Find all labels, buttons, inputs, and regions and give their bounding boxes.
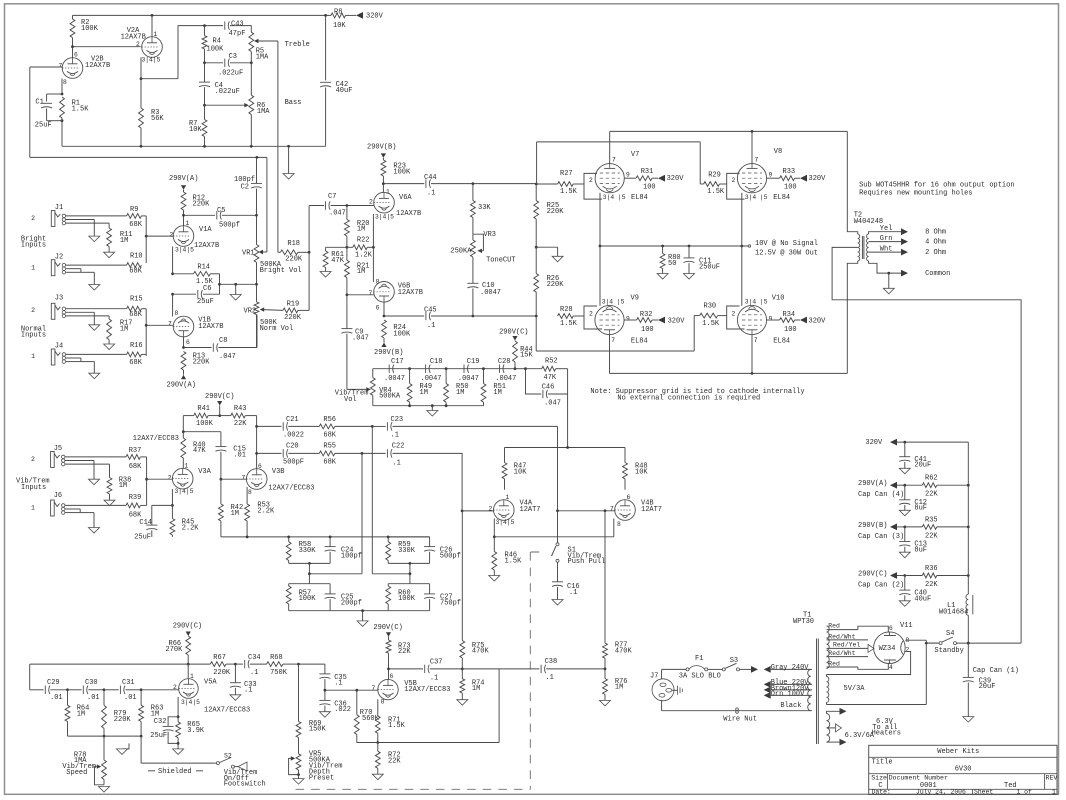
resistor R28 xyxy=(558,306,584,328)
resistor R37 xyxy=(126,447,147,505)
wire T2 primary top xyxy=(847,131,857,234)
switch S4 standby xyxy=(925,630,1021,655)
label Treble xyxy=(285,41,310,49)
wire phase bottom rail xyxy=(289,609,430,612)
svg-text:R14: R14 xyxy=(197,264,210,272)
wire V5B cathode rail xyxy=(357,742,499,744)
svg-text:VR3: VR3 xyxy=(483,231,496,239)
svg-text:V6A: V6A xyxy=(399,194,412,202)
svg-text:Footswitch: Footswitch xyxy=(224,781,266,789)
svg-text:Yel: Yel xyxy=(880,225,893,233)
svg-text:C46: C46 xyxy=(542,384,555,392)
svg-text:9: 9 xyxy=(626,316,630,323)
wire V3B grid xyxy=(221,478,247,480)
resistor R69 xyxy=(296,664,326,754)
svg-text:.01: .01 xyxy=(87,694,100,702)
resistor R17 xyxy=(104,319,133,350)
svg-text:1M: 1M xyxy=(357,268,365,276)
tube V1A xyxy=(173,220,219,254)
wire vib chain rail xyxy=(373,367,527,370)
svg-text:220K: 220K xyxy=(114,716,132,724)
svg-text:1.2K: 1.2K xyxy=(355,251,373,259)
svg-text:July 24, 2006: July 24, 2006 xyxy=(916,789,966,796)
svg-text:1: 1 xyxy=(386,188,390,195)
resistor R38 xyxy=(104,476,131,505)
wire HT redyel xyxy=(827,642,875,653)
svg-text:1: 1 xyxy=(190,673,194,680)
ground phase network xyxy=(357,611,368,627)
svg-text:Sub WOT45HHR for 16 ohm output: Sub WOT45HHR for 16 ohm output option xyxy=(859,182,1014,190)
resistor R7 xyxy=(189,105,207,146)
svg-text:10K: 10K xyxy=(333,22,346,30)
resistor R36 xyxy=(858,527,970,589)
ground J2 xyxy=(89,285,100,291)
svg-text:C43: C43 xyxy=(231,21,244,29)
svg-text:.047: .047 xyxy=(352,335,369,343)
svg-text:2.2K: 2.2K xyxy=(257,507,275,515)
svg-text:12AX7B: 12AX7B xyxy=(396,210,421,218)
svg-text:500pf: 500pf xyxy=(440,553,461,561)
svg-text:R32: R32 xyxy=(640,311,653,319)
wire T2 center tap xyxy=(832,247,1021,643)
svg-text:22K: 22K xyxy=(925,581,938,589)
capacitor C9 xyxy=(341,295,368,390)
svg-text:7: 7 xyxy=(59,62,63,69)
wire V7 plate xyxy=(609,131,611,163)
svg-text:R35: R35 xyxy=(925,516,938,524)
svg-text:S3: S3 xyxy=(730,657,738,665)
svg-text:Date:: Date: xyxy=(872,789,891,796)
fuse F1 xyxy=(679,655,721,680)
tube V5A xyxy=(179,673,251,715)
svg-text:9: 9 xyxy=(769,316,773,323)
wire V7 grid bracket xyxy=(584,173,602,199)
svg-text:22K: 22K xyxy=(234,420,247,428)
svg-text:R33: R33 xyxy=(783,168,796,176)
svg-text:3|4|5: 3|4|5 xyxy=(496,519,515,526)
svg-text:Inputs: Inputs xyxy=(21,242,46,250)
resistor R73 xyxy=(386,637,411,680)
svg-text:40uF: 40uF xyxy=(336,87,353,95)
capacitor C12 xyxy=(899,485,927,516)
svg-text:7: 7 xyxy=(610,506,614,513)
wire footswitch xyxy=(141,736,216,763)
svg-text:12AX7B: 12AX7B xyxy=(194,242,219,250)
label heaters xyxy=(845,718,901,740)
capacitor C20 xyxy=(257,443,320,467)
svg-text:No external connection is requ: No external connection is required xyxy=(617,395,760,403)
svg-text:Red: Red xyxy=(828,623,840,630)
connector J7 xyxy=(650,673,674,701)
potentiometer R78 speed xyxy=(62,736,109,792)
resistor R29 xyxy=(700,171,727,195)
potentiometer VR5 depth xyxy=(289,751,343,784)
resistor R19 xyxy=(260,252,309,322)
capacitor C40 xyxy=(899,576,931,607)
svg-text:1M: 1M xyxy=(77,710,85,718)
jack J5 xyxy=(31,445,65,468)
tube V10 EL84 xyxy=(737,294,790,345)
mains blue xyxy=(764,679,812,688)
wire V3B cathode xyxy=(246,487,248,504)
svg-text:1M: 1M xyxy=(231,510,239,518)
wire J7 neutral xyxy=(662,700,812,711)
svg-text:56K: 56K xyxy=(151,115,164,123)
capacitor C46 xyxy=(526,369,568,448)
svg-text:R55: R55 xyxy=(323,443,336,451)
svg-text:3|4 |5: 3|4 |5 xyxy=(602,298,625,305)
svg-text:V1A: V1A xyxy=(199,226,212,234)
svg-text:C7: C7 xyxy=(328,193,336,201)
svg-text:750pf: 750pf xyxy=(440,600,461,608)
resistor R44 xyxy=(499,329,533,371)
svg-text:290V(C): 290V(C) xyxy=(373,624,402,632)
svg-text:200pf: 200pf xyxy=(341,600,362,608)
resistor R80 xyxy=(657,246,681,279)
resistor R1 xyxy=(60,97,90,122)
wire V1B grid xyxy=(145,320,173,327)
wire HT redwht 2 xyxy=(827,650,869,657)
wire V3A cathode xyxy=(152,489,174,525)
svg-text:3.9K: 3.9K xyxy=(187,727,205,735)
svg-text:Red/Wht: Red/Wht xyxy=(828,633,855,640)
svg-text:15K: 15K xyxy=(520,352,533,360)
switch S2 xyxy=(216,753,234,769)
svg-text:Preset: Preset xyxy=(309,775,334,783)
wire V3A plate node xyxy=(182,416,221,434)
wire V1B plate xyxy=(182,337,185,349)
tube V4B xyxy=(610,494,662,528)
wire V3B plate node xyxy=(255,416,258,469)
resistor R21 xyxy=(345,247,370,296)
svg-text:3|4|5: 3|4|5 xyxy=(181,699,200,706)
wire HT redwht 1 xyxy=(827,633,869,640)
svg-text:2: 2 xyxy=(168,474,172,481)
ground tone stack xyxy=(283,146,294,179)
svg-text:6: 6 xyxy=(186,339,190,346)
svg-text:3A SLO BLO: 3A SLO BLO xyxy=(679,673,721,681)
label VibTrem Inputs xyxy=(16,478,50,493)
svg-text:Bright Vol: Bright Vol xyxy=(260,267,302,275)
svg-text:320V: 320V xyxy=(809,317,827,325)
dashed boundary xyxy=(296,552,545,789)
wire V1A cathode xyxy=(171,247,174,296)
wire vib chain bottom xyxy=(373,404,484,407)
svg-text:R67: R67 xyxy=(213,654,226,662)
svg-text:.01: .01 xyxy=(124,694,137,702)
wire V2A cathode to feedback xyxy=(140,26,205,81)
svg-text:C45: C45 xyxy=(424,307,437,315)
svg-text:1M: 1M xyxy=(420,389,428,397)
resistor R76 xyxy=(600,669,628,706)
wire J3 tip xyxy=(66,308,127,310)
svg-text:250uF: 250uF xyxy=(699,263,720,271)
capacitor C17 xyxy=(384,358,405,383)
svg-text:.0047: .0047 xyxy=(495,375,516,383)
svg-text:1M: 1M xyxy=(456,389,464,397)
svg-text:7: 7 xyxy=(242,474,246,481)
svg-text:40uF: 40uF xyxy=(914,595,931,603)
tube V9 EL84 xyxy=(595,294,648,345)
transformer T1 HT secondary xyxy=(827,626,830,669)
svg-text:1: 1 xyxy=(31,505,35,512)
svg-text:1: 1 xyxy=(1052,789,1056,796)
svg-text:W404248: W404248 xyxy=(854,218,883,226)
potentiometer R6 Bass xyxy=(205,63,271,147)
ground vib chain xyxy=(427,406,438,416)
svg-text:V10: V10 xyxy=(772,294,785,302)
resistor R70 xyxy=(354,690,379,742)
potentiometer VR1 Bright Vol xyxy=(242,215,302,285)
svg-text:290V(A): 290V(A) xyxy=(167,382,196,390)
svg-text:220K: 220K xyxy=(284,314,302,322)
svg-text:7: 7 xyxy=(168,320,172,327)
wire upper cathode rail xyxy=(600,245,750,248)
wire V10 cathode top xyxy=(741,246,743,306)
svg-text:1M: 1M xyxy=(357,226,365,234)
svg-text:Cap Can (3): Cap Can (3) xyxy=(858,533,904,541)
svg-text:100: 100 xyxy=(641,326,654,334)
svg-text:100: 100 xyxy=(643,184,656,192)
svg-text:320V: 320V xyxy=(366,13,384,21)
svg-text:R36: R36 xyxy=(925,565,938,573)
wire lower grid jump xyxy=(536,316,694,351)
resistor R11 xyxy=(104,228,133,258)
svg-text:.1: .1 xyxy=(391,431,399,439)
svg-text:9: 9 xyxy=(769,171,773,178)
svg-text:6: 6 xyxy=(376,304,380,311)
resistor R48 xyxy=(623,448,649,490)
svg-text:7: 7 xyxy=(754,337,758,344)
svg-text:68K: 68K xyxy=(129,268,142,276)
resistor R64 xyxy=(65,690,89,736)
resistor R77 xyxy=(603,511,633,671)
wire cathode to VR1 bottom xyxy=(218,283,256,286)
svg-text:290V(B): 290V(B) xyxy=(374,349,403,357)
wire HT red top xyxy=(827,623,858,630)
transformer T2 xyxy=(858,234,869,261)
resistor R50 xyxy=(444,369,469,406)
resistor R13 xyxy=(181,352,210,380)
capacitor C13 xyxy=(899,527,927,558)
svg-text:Black: Black xyxy=(780,702,801,710)
svg-text:R18: R18 xyxy=(287,240,300,248)
svg-text:25uF: 25uF xyxy=(134,533,151,541)
svg-text:Title: Title xyxy=(872,758,893,766)
label cap can 2 xyxy=(858,582,904,590)
svg-text:Cap Can (1): Cap Can (1) xyxy=(973,667,1019,675)
label 290V(C) V5A xyxy=(173,623,202,637)
capacitor C45 xyxy=(384,307,474,330)
resistor R27 xyxy=(536,170,584,196)
svg-text:Weber Kits: Weber Kits xyxy=(937,748,979,756)
resistor R23 xyxy=(381,158,411,192)
svg-text:W014684: W014684 xyxy=(939,609,968,617)
wire J6 tip xyxy=(65,505,126,527)
svg-text:100K: 100K xyxy=(81,25,99,33)
svg-text:10K: 10K xyxy=(635,469,648,477)
svg-text:.1: .1 xyxy=(427,322,435,330)
svg-text:12AX7/ECC83: 12AX7/ECC83 xyxy=(404,686,450,694)
wire J7 hot xyxy=(662,669,686,678)
svg-text:R43: R43 xyxy=(234,405,247,413)
heater taps xyxy=(827,708,847,746)
transformer T1 primary xyxy=(808,669,811,710)
svg-text:47K: 47K xyxy=(544,374,557,382)
svg-text:100K: 100K xyxy=(393,330,411,338)
svg-text:R52: R52 xyxy=(545,357,558,365)
capacitor C37 xyxy=(389,659,464,683)
resistor R71 xyxy=(375,699,405,743)
svg-text:100K: 100K xyxy=(398,595,416,603)
wire V4A grid xyxy=(461,453,494,512)
capacitor C39 xyxy=(963,643,1019,722)
svg-text:V11: V11 xyxy=(900,622,913,630)
svg-text:3|4|5: 3|4|5 xyxy=(175,488,194,495)
svg-text:12AX7B: 12AX7B xyxy=(85,62,110,70)
transformer T1 heater winding xyxy=(827,714,830,743)
svg-text:1: 1 xyxy=(186,220,190,227)
svg-text:R28: R28 xyxy=(560,306,573,314)
svg-text:Norm Vol: Norm Vol xyxy=(260,325,294,333)
earth symbol xyxy=(672,686,683,695)
jack J3 xyxy=(31,295,66,320)
svg-text:320V: 320V xyxy=(865,439,883,447)
svg-text:V3A: V3A xyxy=(198,468,211,476)
svg-text:290V(B): 290V(B) xyxy=(858,522,887,530)
svg-text:C18: C18 xyxy=(430,358,443,366)
resistor R55 xyxy=(319,443,363,467)
tube V6A xyxy=(369,188,421,220)
svg-text:500KA: 500KA xyxy=(379,393,401,401)
resistor R74 xyxy=(457,669,485,705)
svg-text:270K: 270K xyxy=(166,646,184,654)
capacitor C43 xyxy=(203,21,251,39)
svg-text:.047: .047 xyxy=(544,400,561,408)
jack J1 xyxy=(31,204,66,227)
wire J5 tip xyxy=(65,456,126,458)
label Bright Inputs xyxy=(21,236,46,250)
svg-text:12AX7B: 12AX7B xyxy=(398,289,423,297)
label 290V(C) phase xyxy=(373,624,402,637)
svg-text:1.5K: 1.5K xyxy=(707,188,725,196)
svg-text:1M: 1M xyxy=(120,237,128,245)
svg-text:Red/Wht: Red/Wht xyxy=(828,650,855,657)
svg-text:Push Pull: Push Pull xyxy=(568,558,606,566)
svg-text:Requires new mounting holes: Requires new mounting holes xyxy=(859,189,972,197)
svg-text:330K: 330K xyxy=(398,547,416,555)
wire T2 sec common xyxy=(869,261,951,278)
svg-text:.0047: .0047 xyxy=(421,375,442,383)
svg-text:Heaters: Heaters xyxy=(872,730,901,738)
svg-text:Cap Can (2): Cap Can (2) xyxy=(858,582,904,590)
svg-text:320V: 320V xyxy=(809,175,827,183)
svg-text:Wht: Wht xyxy=(880,245,893,253)
svg-text:J4: J4 xyxy=(55,343,63,351)
resistor R65 xyxy=(176,717,205,745)
capacitor C35 xyxy=(319,674,346,690)
svg-text:1: 1 xyxy=(31,265,35,272)
svg-text:290V(A): 290V(A) xyxy=(858,480,887,488)
svg-text:2.2K: 2.2K xyxy=(182,524,200,532)
test point xyxy=(748,240,818,258)
potentiometer VR4 VibTrem Vol xyxy=(335,369,401,406)
svg-text:1MA: 1MA xyxy=(256,54,269,62)
switch S3 xyxy=(708,657,758,673)
tube V3B xyxy=(242,463,315,496)
svg-text:8: 8 xyxy=(175,310,179,317)
svg-text:12AX7/ECC83: 12AX7/ECC83 xyxy=(204,706,250,714)
svg-text:3|4 |5: 3|4 |5 xyxy=(745,298,768,305)
svg-text:3|4 |5: 3|4 |5 xyxy=(603,194,626,201)
transformer T2 label xyxy=(854,212,883,227)
svg-text:1.5K: 1.5K xyxy=(72,106,90,114)
svg-text:1: 1 xyxy=(184,463,188,470)
tube V2B xyxy=(59,51,111,86)
svg-text:C38: C38 xyxy=(545,658,558,666)
capacitor C18 xyxy=(421,358,443,383)
tube V2A xyxy=(121,27,163,63)
resistor R75 xyxy=(460,511,490,669)
svg-text:R9: R9 xyxy=(130,206,138,214)
wire C45 run to R28 xyxy=(473,315,536,317)
svg-text:100K: 100K xyxy=(299,595,317,603)
wire V6A cathode link xyxy=(372,214,374,282)
svg-text:.022: .022 xyxy=(334,706,351,714)
svg-text:2: 2 xyxy=(369,199,373,206)
resistor R45 xyxy=(170,505,199,537)
resistor R20 xyxy=(345,206,370,249)
resistor R4 xyxy=(202,26,224,65)
svg-text:R10: R10 xyxy=(130,253,143,261)
svg-text:220K: 220K xyxy=(547,208,565,216)
label 290V(A) bottom xyxy=(167,382,196,390)
wire V4 cathode rail xyxy=(494,536,614,538)
svg-text:Treble: Treble xyxy=(285,41,310,49)
svg-text:2: 2 xyxy=(489,506,493,513)
capacitor C3 xyxy=(205,53,252,78)
svg-text:290V(C): 290V(C) xyxy=(499,329,528,337)
wire V10 plate xyxy=(751,335,753,374)
svg-text:8uF: 8uF xyxy=(914,505,927,513)
ground J5 xyxy=(89,479,100,485)
resistor 33K xyxy=(471,184,492,235)
wire V2A plate pin1 xyxy=(151,15,153,36)
svg-text:12AX7B: 12AX7B xyxy=(121,34,146,42)
svg-text:2: 2 xyxy=(31,456,35,463)
svg-text:Grn: Grn xyxy=(880,235,893,243)
svg-text:.047: .047 xyxy=(219,353,236,361)
resistor R47 xyxy=(502,448,527,490)
svg-text:3|4|5: 3|4|5 xyxy=(142,56,161,63)
svg-text:6: 6 xyxy=(74,51,78,58)
svg-text:8 Ohm: 8 Ohm xyxy=(925,229,946,237)
resistor R41 xyxy=(183,405,221,428)
svg-text:S4: S4 xyxy=(946,630,954,638)
capacitor C11 xyxy=(684,246,721,279)
capacitor C42 xyxy=(320,15,352,146)
svg-text:100K: 100K xyxy=(393,169,411,177)
ground J6 xyxy=(89,528,100,534)
svg-text:50: 50 xyxy=(668,260,676,268)
svg-text:.0047: .0047 xyxy=(480,289,501,297)
svg-text:68K: 68K xyxy=(129,463,142,471)
tube V4A xyxy=(489,494,541,526)
svg-text:.01: .01 xyxy=(233,451,246,459)
svg-text:J7: J7 xyxy=(650,673,658,681)
svg-text:C37: C37 xyxy=(430,659,443,667)
tube V1B xyxy=(173,310,223,346)
